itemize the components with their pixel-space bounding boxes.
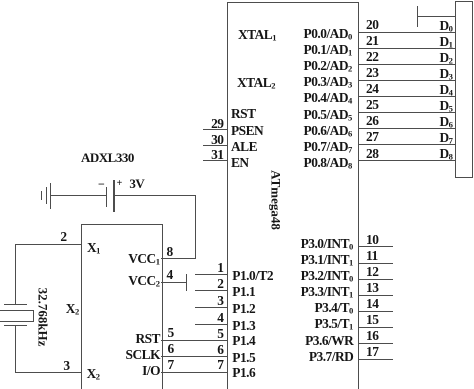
pin number 17 — [366, 345, 378, 358]
pin number 30 — [211, 133, 223, 146]
pin label I/O — [142, 364, 160, 377]
pin label EN — [231, 156, 249, 169]
wire P0.7/AD7 pin 27 to D7 — [358, 144, 455, 145]
pin label P0.8/AD8 — [304, 156, 353, 170]
pin number 6 (ADXL330 side) — [168, 342, 174, 355]
net label D6 — [439, 115, 452, 129]
pin label P0.5/AD5 — [304, 108, 353, 122]
battery BT1 negative plate — [106, 187, 107, 207]
pin number 5 (ATmega48 side) — [217, 327, 223, 340]
pin number 22 — [366, 50, 378, 63]
pin label P0.3/AD3 — [304, 75, 353, 89]
wire VCC1 vertical drop — [195, 196, 196, 259]
wire P1.0/T2 pin 1 stub — [195, 274, 228, 275]
pin label P1.2 — [232, 302, 255, 315]
net label D8 — [439, 147, 452, 161]
pin number 1 (ATmega48 side) — [217, 261, 223, 274]
wire P3.7/RD pin 17 stub — [358, 359, 394, 360]
pin number 2 (ATmega48 side) — [217, 277, 223, 290]
wire X1 pin2 to crystal — [15, 244, 82, 245]
pin number 14 — [366, 297, 378, 310]
net label D1 — [439, 35, 452, 49]
node VCC2 stub tick — [186, 274, 187, 291]
pin number 27 — [366, 130, 378, 143]
pin number 11 — [366, 249, 378, 262]
pin label SCLK — [126, 348, 160, 361]
pin number 5 (ADXL330 side) — [168, 326, 174, 339]
pin number 29 — [211, 117, 223, 130]
net label X2 (crystal) — [66, 302, 79, 316]
net label D3 — [439, 67, 452, 81]
pin number 6 (ATmega48 side) — [217, 343, 223, 356]
pin label P0.2/AD2 — [304, 59, 353, 73]
pin label P3.0/INT0 — [301, 237, 354, 251]
ground symbol bar 1 — [41, 191, 42, 200]
pin label P3.2/INT0 — [301, 269, 354, 283]
wire EN pin 31 stub — [203, 160, 228, 161]
wire ground to battery negative — [50, 195, 106, 196]
wire P0.8/AD8 pin 28 to D8 — [358, 160, 455, 161]
pin number 10 — [366, 233, 378, 246]
pin number 3 (ATmega48 side) — [217, 294, 223, 307]
wire crystal bottom lead — [15, 326, 16, 372]
pin number 25 — [366, 98, 378, 111]
pin label VCC2 — [128, 274, 160, 288]
pin label P1.5 — [232, 351, 255, 364]
wire RST to P1.4 pin5 — [161, 340, 228, 341]
wire crystal top lead — [15, 244, 16, 304]
crystal Y1 top plate — [4, 304, 28, 305]
pin number 4 (ATmega48 side) — [217, 311, 223, 324]
pin number 7 (ADXL330 side) — [168, 358, 174, 371]
wire P3.6/WR pin 16 stub — [358, 343, 394, 344]
pin label ALE — [231, 140, 257, 153]
pin label P3.4/T0 — [314, 301, 353, 315]
IC U1 ATmega48 body — [227, 2, 359, 389]
wire P3.2/INT0 pin 12 stub — [358, 279, 394, 280]
wire P0.6/AD6 pin 26 to D6 — [358, 128, 455, 129]
wire P3.3/INT1 pin 13 stub — [358, 295, 394, 296]
wire ALE pin 30 stub — [203, 145, 228, 146]
pin number 15 — [366, 313, 378, 326]
pin label RST (ADXL330) — [135, 332, 160, 345]
pin label PSEN — [231, 124, 263, 137]
wire VCC2 pin4 stub — [161, 282, 186, 283]
wire bus stub to J1 — [418, 16, 455, 17]
pin number 31 — [211, 148, 223, 161]
wire P3.0/INT0 pin 10 stub — [358, 246, 394, 247]
wire P0.4/AD4 pin 24 to D4 — [358, 96, 455, 97]
pin number 28 — [366, 147, 378, 160]
wire P0.2/AD2 pin 22 to D2 — [358, 64, 455, 65]
pin number 21 — [366, 34, 378, 47]
pin label P0.1/AD1 — [304, 43, 353, 57]
wire P3.1/INT1 pin 11 stub — [358, 263, 394, 264]
battery positive sign — [117, 179, 122, 189]
pin label P3.3/INT1 — [301, 285, 354, 299]
pin number 20 — [366, 18, 378, 31]
pin number 4 — [167, 268, 173, 281]
net label D2 — [439, 51, 452, 65]
pin label P1.0/T2 — [232, 269, 273, 282]
wire P0.0/AD0 pin 20 to D0 — [358, 32, 455, 33]
wire X2 pin3 to crystal — [15, 372, 82, 373]
pin number 2 — [60, 230, 66, 243]
pin number 23 — [366, 66, 378, 79]
wire P0.1/AD1 pin 21 to D1 — [358, 48, 455, 49]
wire P1.2 pin 3 stub — [195, 307, 228, 308]
pin label VCC1 — [128, 252, 160, 266]
pin label P3.5/T1 — [314, 317, 353, 331]
pin number 13 — [366, 281, 378, 294]
IC U2 name ADXL330 — [81, 151, 134, 164]
pin number 24 — [366, 82, 378, 95]
net label D7 — [439, 131, 452, 145]
pin label P1.4 — [232, 334, 255, 347]
pin label P3.7/RD — [309, 350, 353, 363]
pin label P1.6 — [232, 366, 255, 379]
wire P0.3/AD3 pin 23 to D3 — [358, 80, 455, 81]
pin label X1 — [87, 241, 100, 255]
wire PSEN pin 29 stub — [203, 129, 228, 130]
pin number 8 — [167, 245, 173, 258]
pin number 12 — [366, 265, 378, 278]
ground symbol bar 2 — [46, 187, 47, 204]
pin label X2 bottom — [87, 367, 100, 381]
pin number 7 (ATmega48 side) — [217, 358, 223, 371]
wire VCC1 pin8 — [161, 258, 196, 259]
net label D4 — [439, 83, 452, 97]
battery BT1 positive plate — [113, 180, 115, 213]
pin label XTAL2 — [237, 76, 276, 90]
ground symbol bar 3 — [50, 183, 51, 209]
wire P1.3 pin 4 stub — [195, 324, 228, 325]
net label D5 — [439, 99, 452, 113]
pin label RST — [231, 107, 256, 120]
wire I/O to P1.6 pin7 — [161, 372, 228, 373]
pin number 16 — [366, 329, 378, 342]
crystal Y1 value 32.768kHz (rotated) — [37, 288, 50, 347]
pin label P3.1/INT1 — [301, 253, 354, 267]
net label D0 — [439, 19, 452, 33]
IC U2 ADXL330 body — [81, 224, 163, 389]
wire P0.5/AD5 pin 25 to D5 — [358, 112, 455, 113]
wire P1.1 pin 2 stub — [195, 290, 228, 291]
wire P3.5/T1 pin 15 stub — [358, 327, 394, 328]
node bus stub tick — [417, 6, 418, 27]
pin label P3.6/WR — [305, 334, 353, 347]
wire battery positive to VCC1 node — [114, 195, 196, 196]
IC U1 name ATmega48 (rotated) — [270, 170, 283, 230]
wire SCLK to P1.5 pin6 — [161, 356, 228, 357]
crystal Y1 body 32.768kHz — [0, 310, 34, 322]
pin label P1.3 — [232, 319, 255, 332]
pin label P1.1 — [232, 285, 255, 298]
pin number 26 — [366, 114, 378, 127]
battery BT1 value 3V — [129, 177, 144, 190]
pin label XTAL1 — [238, 28, 277, 42]
wire P3.4/T0 pin 14 stub — [358, 311, 394, 312]
crystal Y1 bottom plate — [4, 325, 28, 326]
pin label P0.7/AD7 — [304, 140, 353, 154]
connector J1 data bus box — [455, 1, 473, 178]
pin label P0.6/AD6 — [304, 124, 353, 138]
pin number 3 — [63, 359, 69, 372]
pin label P0.4/AD4 — [304, 91, 353, 105]
pin label P0.0/AD0 — [304, 27, 353, 41]
battery negative sign — [98, 178, 104, 190]
